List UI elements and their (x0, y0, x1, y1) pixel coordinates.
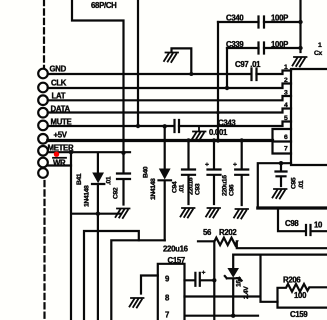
node wire A to MUTE (136, 124, 140, 128)
connector circle GND (38, 69, 48, 79)
svg-text:164: 164 (236, 276, 243, 287)
svg-text:.01: .01 (298, 180, 305, 189)
capacitor C95 to ground (276, 163, 287, 186)
wire LAT bus (48, 96, 291, 100)
wire METER bus (48, 151, 130, 153)
wire MUTE bus right to pin 5 (179, 122, 291, 127)
capacitor C340 100P (259, 17, 265, 28)
capacitor C96 220u16 polarized (235, 141, 248, 206)
svg-text:C98: C98 (285, 219, 299, 228)
capacitor C97 .01 in GND-to-pin1 line (252, 69, 257, 81)
svg-text:220u16: 220u16 (222, 175, 229, 196)
boundary dashed line (top segment) (43, 0, 45, 67)
svg-text:C159: C159 (290, 310, 308, 319)
wire WR net down (71, 152, 121, 320)
svg-text:R202: R202 (219, 228, 237, 237)
svg-text:LAT: LAT (52, 92, 66, 101)
capacitor C92 on METER (117, 153, 130, 205)
wire C339 tap down to CLK (226, 48, 228, 88)
svg-text:B41: B41 (76, 173, 83, 185)
wire +9V rail (thick) (48, 139, 273, 142)
diode D40 1N4148 (163, 124, 167, 128)
wire C97 to pin 1 (257, 71, 292, 75)
connector circle spare (38, 168, 48, 178)
connector circle WR (38, 158, 48, 168)
zener diode 2.4V (233, 255, 327, 268)
wire pins 6/7 supply bracket (273, 129, 292, 154)
ground stub on MUTE line (198, 126, 200, 131)
wire R202 left vertical (213, 241, 215, 320)
connector circle DATA (38, 108, 48, 118)
IC2 box bottom (158, 264, 185, 320)
connector circle LAT (38, 95, 48, 105)
wire C340 tap down to +9V rail (217, 22, 219, 141)
svg-text:+5V: +5V (54, 131, 68, 140)
wire C98 branch (278, 208, 305, 231)
wire bottom rail (186, 315, 258, 317)
wire C340 right lead (264, 21, 301, 23)
connector circle MUTE (38, 121, 48, 131)
wire thick output line (258, 206, 327, 209)
wire CLK bus (48, 84, 291, 89)
ground top middle (164, 53, 178, 63)
op-amp/driver IC U1 box (291, 69, 327, 165)
diode D41 1N4148 (97, 153, 99, 172)
capacitor C93 22u16 polarized (208, 141, 221, 205)
svg-text:.01: .01 (106, 176, 113, 185)
node METER junction (121, 151, 125, 155)
svg-text:.01: .01 (179, 184, 186, 193)
wire pin left to ground (141, 276, 158, 294)
svg-text:22u16: 22u16 (188, 177, 195, 195)
red annotation dot (54, 152, 59, 157)
wire from 68P/CH to METER line (72, 0, 124, 153)
wire DATA bus (48, 109, 291, 113)
svg-text:C93: C93 (195, 183, 202, 195)
capacitor C157 220u16 (185, 273, 215, 286)
wire pin8 net (185, 255, 278, 302)
wire C340 left lead (218, 21, 259, 23)
svg-text:C96: C96 (229, 184, 236, 196)
svg-text:C92: C92 (113, 187, 120, 199)
svg-text:C95: C95 (291, 177, 298, 189)
svg-text:C157: C157 (168, 256, 185, 265)
wire from top to MUTE line (137, 0, 139, 126)
capacitor C339 100P (259, 43, 265, 54)
svg-text:B40: B40 (143, 166, 150, 178)
ground under C339/C340 tie (293, 57, 307, 67)
svg-text:+: + (233, 162, 237, 169)
svg-text:CLK: CLK (51, 79, 67, 88)
ground (192, 132, 206, 142)
svg-text:+: + (205, 162, 209, 169)
wire stub mid bottom (84, 231, 139, 320)
wire MUTE bus left (48, 125, 174, 127)
boundary dashed line (bottom segment) (43, 181, 45, 320)
svg-text:56: 56 (203, 228, 212, 237)
svg-text:68P/CH: 68P/CH (91, 1, 117, 10)
svg-text:10: 10 (314, 221, 323, 230)
capacitor C343 0.001 in MUTE line (175, 120, 180, 132)
wire D40 down-left to bottom (111, 240, 164, 320)
wire vertical from top to C339/C340 ties (299, 0, 301, 52)
connector circle +5V (38, 134, 48, 144)
connector circle METER (38, 146, 48, 156)
wire C339 left lead (227, 47, 259, 49)
svg-text:7: 7 (165, 311, 169, 320)
svg-text:+: + (202, 270, 206, 277)
svg-text:C94: C94 (172, 181, 179, 193)
svg-text:1N4148: 1N4148 (84, 185, 91, 207)
wire C339 right lead (264, 47, 301, 49)
svg-text:C97 .01: C97 .01 (235, 60, 261, 69)
svg-text:100: 100 (294, 291, 307, 300)
connector circle CLK (38, 83, 48, 93)
capacitor C94 .01 (182, 141, 195, 205)
svg-text:Cx: Cx (314, 50, 323, 57)
svg-text:R206: R206 (283, 276, 301, 285)
svg-text:1N4148: 1N4148 (150, 178, 157, 200)
wire GND bus (48, 73, 250, 75)
svg-text:220u16: 220u16 (163, 245, 189, 254)
resistor R202 56 (198, 238, 327, 249)
svg-text:GND: GND (50, 65, 67, 74)
capacitor C98 10 (306, 225, 327, 235)
resistor R206 180 (278, 284, 327, 308)
wire IC ground net (258, 163, 291, 208)
wire WR stub (48, 164, 71, 166)
